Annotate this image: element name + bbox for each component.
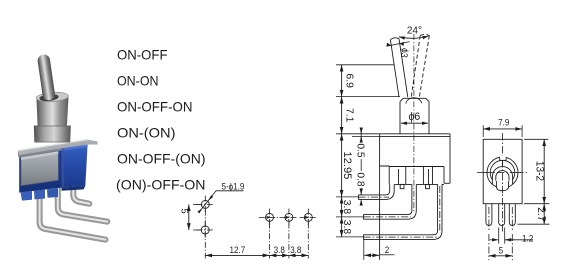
- hole H2: [201, 226, 209, 234]
- switch bushing hex base: [34, 126, 71, 143]
- lever dashed alternate position: [411, 34, 429, 97]
- dim 1.2 extensions: [499, 228, 505, 244]
- side pin centerlines: [489, 207, 512, 232]
- terminal band bottom: [395, 183, 445, 185]
- dim 0.5 0.8 line: [360, 128, 362, 195]
- svg-text:5-ϕ1.9: 5-ϕ1.9: [222, 181, 245, 192]
- hole H3: [266, 213, 274, 221]
- hole H3 crosshair: [259, 209, 280, 227]
- svg-text:7.1: 7.1: [343, 108, 354, 123]
- center line vertical: [413, 34, 415, 212]
- switch pin rear-short: [73, 187, 89, 204]
- side pin left: [486, 204, 492, 226]
- pin P1 bent: [359, 184, 395, 199]
- svg-text:3.8: 3.8: [341, 200, 352, 215]
- center lines over dome: [502, 160, 504, 195]
- pin P3 bent: [364, 184, 442, 239]
- switch lever: [37, 54, 56, 101]
- svg-text:ON-OFF-ON: ON-OFF-ON: [117, 99, 193, 115]
- dim phi6 line: [401, 122, 428, 124]
- extension lines pins: [336, 197, 364, 237]
- dim 2.7 line: [543, 204, 545, 225]
- terminal band verticals: [389, 167, 444, 185]
- switch body blue front face: [19, 148, 61, 192]
- dim phi3 line: [387, 42, 410, 47]
- svg-text:3.8: 3.8: [290, 245, 301, 256]
- dim 7.9 line: [483, 128, 522, 130]
- switch bushing top rim: [36, 91, 69, 102]
- svg-text:5: 5: [178, 208, 189, 213]
- svg-text:ON-ON: ON-ON: [117, 73, 159, 89]
- svg-text:ON-OFF: ON-OFF: [117, 47, 168, 63]
- leader 5-phi1.9: [199, 191, 244, 213]
- hole H4 crosshair: [280, 209, 298, 227]
- switch bushing cylinder: [36, 97, 68, 127]
- terminal foot b: [426, 184, 430, 188]
- svg-text:0.8: 0.8: [354, 172, 365, 187]
- leader arrowheads: [208, 195, 213, 201]
- dim 3.8 line a: [270, 254, 289, 256]
- lever dome: [492, 167, 512, 184]
- dim 13-2 extension top: [524, 138, 548, 140]
- side body rectangle: [483, 139, 522, 203]
- switch metal frame window: [21, 151, 58, 185]
- svg-text:24°: 24°: [407, 25, 422, 36]
- pin P2 bent: [364, 184, 417, 219]
- dim 1.2 arrows: [490, 239, 499, 241]
- svg-text:1.2: 1.2: [522, 233, 533, 244]
- chain dimension line left: [341, 65, 343, 97]
- lever dome inner arc: [496, 171, 509, 181]
- extension line lever top: [336, 64, 394, 66]
- keyway notch: [500, 156, 506, 160]
- svg-text:12.95: 12.95: [341, 151, 353, 179]
- body top double line: [380, 134, 450, 137]
- svg-text:2: 2: [385, 244, 390, 255]
- side center lines: [502, 133, 504, 232]
- terminal foot a: [400, 184, 404, 188]
- dim 5 extension lines: [193, 204, 201, 230]
- terminal band top: [380, 165, 444, 168]
- dim phi3 arrows: [386, 42, 404, 47]
- svg-text:5: 5: [499, 245, 504, 256]
- svg-text:13-2: 13-2: [533, 161, 545, 181]
- body left wall and extension: [379, 134, 381, 260]
- hole H4: [285, 213, 293, 221]
- switch plate right tab: [88, 140, 98, 145]
- pin P3 centerlines: [364, 186, 440, 237]
- switch top metal plate: [18, 140, 88, 156]
- bushing-nut seam: [37, 125, 67, 127]
- bushing outer circle: [487, 157, 518, 188]
- svg-text:ON-OFF-(ON): ON-OFF-(ON): [117, 151, 206, 167]
- holes bottom extension lines: [205, 210, 308, 259]
- svg-text:(ON)-OFF-ON: (ON)-OFF-ON: [116, 177, 206, 193]
- keyway notch bottom: [500, 159, 506, 161]
- hole H2 crosshair: [196, 221, 214, 239]
- pin P1 centerline: [359, 196, 389, 198]
- side pin middle: [499, 204, 505, 226]
- dim 2.7 extensions: [518, 204, 550, 225]
- hole center marks: [267, 216, 310, 219]
- dim 5 extensions: [489, 234, 512, 260]
- svg-text:12.7: 12.7: [230, 245, 246, 256]
- dim 3.8 line b: [289, 254, 308, 256]
- svg-text:ϕ3: ϕ3: [399, 47, 411, 58]
- svg-text:7.9: 7.9: [498, 117, 509, 128]
- svg-text:ON-(ON): ON-(ON): [117, 125, 176, 141]
- bushing inner circle: [490, 160, 515, 185]
- side pin right: [509, 204, 515, 226]
- switch body blue side face: [62, 145, 88, 188]
- switch pin middle: [58, 187, 108, 222]
- pin P2 centerline: [364, 216, 411, 218]
- body right wall: [444, 134, 450, 184]
- dim 2 bottom: [363, 239, 365, 259]
- lever tip capsule: [496, 182, 508, 191]
- hole H1 crosshair: [197, 196, 215, 214]
- switch body bottom teeth: [21, 191, 33, 201]
- dim 5 line: [489, 255, 512, 257]
- hole H1: [201, 200, 209, 208]
- dim 7.9 extensions: [483, 125, 522, 137]
- switch body bottom edge shade: [62, 186, 86, 191]
- svg-text:2.7: 2.7: [535, 207, 547, 221]
- extension line plate bottom: [352, 135, 380, 137]
- svg-text:3.8: 3.8: [341, 220, 352, 235]
- svg-text:3.8: 3.8: [274, 245, 285, 256]
- extension line body top: [336, 133, 380, 135]
- svg-text:0.5: 0.5: [354, 143, 365, 158]
- lever solid outline: [390, 38, 407, 97]
- extension line bushing top: [336, 96, 400, 98]
- dim 12.7 line: [205, 254, 269, 256]
- dim 5 vertical line: [188, 204, 190, 230]
- bushing: [400, 98, 429, 133]
- svg-text:ϕ6: ϕ6: [408, 111, 420, 123]
- angle arc 24deg: [399, 36, 429, 38]
- dim 13-2 line: [543, 139, 545, 203]
- svg-text:6.9: 6.9: [343, 74, 354, 89]
- hole H5: [304, 213, 312, 221]
- switch pin front-long: [40, 187, 106, 240]
- hole H5 crosshair: [299, 209, 317, 227]
- lever base dome: [406, 98, 422, 104]
